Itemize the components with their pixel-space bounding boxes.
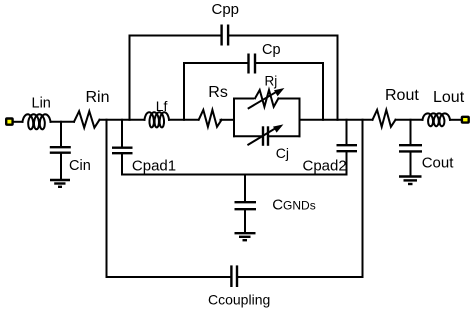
- svg-text:Cpad1: Cpad1: [132, 158, 176, 175]
- wire: [51, 121, 75, 123]
- wire (Cp right leg): [322, 63, 324, 120]
- capacitor Cin: [50, 122, 71, 179]
- wire (Cp rail right): [256, 62, 323, 64]
- svg-text:Lf: Lf: [156, 98, 168, 114]
- resistor Rj (variable): [249, 88, 285, 108]
- resistor Rout: [373, 110, 396, 127]
- wire: [100, 119, 145, 121]
- capacitor Cpad2: [337, 120, 358, 175]
- svg-text:Lin: Lin: [32, 95, 51, 111]
- wire (RjCj box right edge): [299, 99, 301, 137]
- wire (bottom rail left): [107, 276, 231, 278]
- ground: [50, 180, 70, 187]
- capacitor Cp: [249, 54, 256, 74]
- svg-text:Cout: Cout: [422, 155, 455, 172]
- wire (RjCj box left edge): [233, 99, 235, 137]
- inductor Lout: [423, 113, 451, 126]
- wire (box bottom edge left): [234, 135, 261, 137]
- wire: [221, 119, 235, 121]
- resistor Rs: [199, 110, 222, 127]
- inductor Lf: [145, 112, 170, 127]
- wire (Cpad1 to Cpad2 bottom): [122, 174, 347, 176]
- capacitor Cpp: [222, 25, 229, 46]
- svg-text:Cin: Cin: [69, 158, 91, 174]
- wire (Cpp right leg): [337, 36, 339, 120]
- svg-text:Cpad2: Cpad2: [303, 158, 347, 175]
- wire (box top edge left): [234, 98, 253, 100]
- port P2: [462, 117, 469, 123]
- wire (box bottom edge right): [270, 135, 300, 137]
- ground: [399, 177, 422, 185]
- wire (bottom rail right): [238, 276, 362, 278]
- svg-text:Cpp: Cpp: [212, 1, 240, 18]
- capacitor Cj (variable): [248, 124, 283, 145]
- capacitor Cout: [399, 120, 422, 176]
- svg-text:Rs: Rs: [208, 84, 228, 101]
- svg-text:CGNDs: CGNDs: [272, 196, 316, 213]
- svg-text:Rin: Rin: [86, 89, 110, 106]
- svg-text:Cp: Cp: [262, 42, 281, 58]
- wire: [396, 119, 423, 121]
- svg-text:Ccoupling: Ccoupling: [208, 291, 270, 307]
- resistor Rin: [74, 111, 100, 128]
- capacitor Cpad1: [112, 120, 133, 175]
- wire: [450, 119, 461, 121]
- wire (Cp left leg): [183, 63, 185, 120]
- wire (Cp rail left): [184, 62, 247, 64]
- wire: [169, 119, 199, 121]
- svg-text:Rout: Rout: [385, 87, 419, 104]
- ground: [235, 233, 256, 240]
- wire (Cpp rail right): [229, 35, 337, 37]
- wire (box top edge right): [279, 98, 300, 100]
- wire (left rail to Ccoupling): [106, 120, 108, 277]
- wire (Cpp rail left): [130, 35, 221, 37]
- port P1: [6, 119, 12, 125]
- svg-text:Lout: Lout: [433, 89, 465, 106]
- capacitor CGNDs: [235, 175, 257, 233]
- wire: [14, 121, 23, 123]
- inductor Lin: [23, 114, 51, 129]
- capacitor Ccoupling: [231, 265, 237, 287]
- wire (right rail to Ccoupling): [362, 120, 364, 277]
- wire (Cpp left leg): [129, 36, 131, 120]
- svg-text:Rj: Rj: [265, 74, 278, 89]
- wire: [300, 119, 373, 121]
- svg-text:Cj: Cj: [276, 145, 289, 161]
